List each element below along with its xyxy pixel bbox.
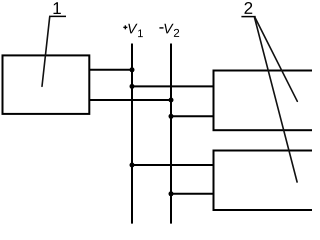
- junction dot on +V1 at feed to upper block: [130, 84, 135, 89]
- block 2 lower (rectangle, bottom-right, clipped at right edge): [214, 151, 316, 211]
- wire block1 to +V1 rail: [89, 69, 132, 71]
- label 2 (reference numeral of blocks 2): [245, 2, 253, 14]
- wire -V2 rail to lower block 2: [171, 193, 214, 195]
- block 2 upper (rectangle, top-right, clipped at right edge): [214, 71, 316, 131]
- wire +V1 rail to lower block 2: [132, 164, 214, 166]
- supply rail -V2 (vertical wire): [170, 44, 172, 224]
- junction dot on -V2 at feed to upper block: [169, 114, 174, 119]
- net label +V1: [123, 24, 142, 37]
- label 1 (reference numeral of block 1): [53, 2, 60, 14]
- leader line from label 1 into block 1: [42, 17, 50, 86]
- net label -V2: [159, 24, 179, 37]
- supply rail +V1 (vertical wire): [131, 44, 133, 224]
- wire -V2 rail to upper block 2: [171, 115, 214, 117]
- junction dot on -V2 at feed to lower block: [169, 191, 174, 196]
- block 1 (rectangle, top-left): [3, 55, 90, 114]
- leader line from label 2 into lower block 2: [255, 18, 298, 183]
- leader line from label 2 into upper block 2: [255, 18, 297, 102]
- wire +V1 rail to upper block 2: [132, 85, 214, 87]
- underline of label 1: [49, 15, 66, 17]
- junction dot on -V2 at wire B: [169, 98, 174, 103]
- junction dot on +V1 at feed to lower block: [130, 163, 135, 168]
- underline of label 2: [241, 16, 255, 18]
- wire block1 to -V2 rail: [89, 99, 171, 101]
- junction dot on +V1 at wire A: [130, 67, 135, 72]
